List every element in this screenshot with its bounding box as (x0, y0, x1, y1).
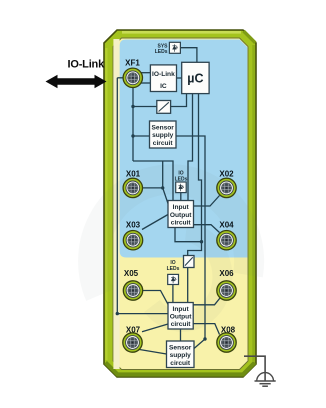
svg-text:circuit: circuit (153, 140, 174, 147)
svg-text:X02: X02 (219, 170, 234, 179)
svg-text:Sensor: Sensor (169, 345, 192, 352)
wire XF1 to IO-Link IC pin2 (141, 82, 150, 84)
svg-text:X08: X08 (221, 326, 236, 335)
connector X08 (217, 333, 236, 352)
wire X05 to IO box2 (141, 291, 168, 305)
wire XF1 down trunk (132, 88, 134, 162)
LED indicator box IO upper (176, 182, 187, 193)
voltage regulator box 1 (diagonal) (157, 101, 171, 114)
wire trunk horizontal to IO box 1 top (133, 161, 173, 201)
svg-text:supply: supply (170, 352, 192, 359)
wire X03 to IO box1 (142, 215, 168, 230)
pale strip left margin (113, 39, 119, 369)
LED indicator box IO lower (168, 274, 179, 284)
connector X03 (123, 231, 142, 250)
svg-text:Input: Input (173, 306, 190, 313)
connector X05 (123, 281, 142, 300)
ground wire (244, 356, 265, 380)
svg-text:X05: X05 (124, 269, 139, 278)
wire rail to lower IO box (117, 313, 168, 315)
svg-text:Output: Output (170, 212, 192, 219)
connector X06 (217, 281, 236, 300)
wire X02 to IO box1 (194, 196, 220, 207)
wire X07 to sensor supply 2 (140, 350, 167, 355)
svg-text:X01: X01 (126, 170, 141, 179)
connector X07 (123, 333, 142, 352)
svg-text:LEDs: LEDs (167, 266, 180, 272)
svg-text:circuit: circuit (171, 321, 192, 328)
microcontroller uC box (182, 62, 209, 93)
watermark (93, 179, 249, 322)
wire uC pin2 down to IO box1 (188, 94, 193, 201)
svg-text:X04: X04 (219, 220, 234, 229)
svg-text:IO-Link: IO-Link (152, 71, 175, 78)
svg-text:IO-Link: IO-Link (68, 59, 106, 71)
wire uC pin3 down to isolator 2 (188, 94, 202, 256)
wire X01 to IO box1 (141, 188, 168, 204)
svg-text:circuit: circuit (171, 219, 192, 226)
svg-text:XF1: XF1 (125, 59, 140, 68)
wire IO-Link IC to uC (177, 77, 182, 79)
svg-text:X03: X03 (126, 220, 141, 229)
wire IO box1 bottom to isolator2 line (175, 228, 202, 242)
IO-Link double arrow (46, 75, 107, 89)
wire X08 to IO box2 (193, 324, 219, 335)
connector X04 (217, 231, 236, 250)
inner panel (pale) (113, 38, 248, 370)
svg-text:Output: Output (170, 314, 192, 321)
wire trunk to regulator (133, 106, 157, 108)
wire XF1 left to rail (117, 48, 220, 354)
wire LED3 stub (172, 285, 174, 303)
blue section (120, 40, 248, 258)
wire regulator to uC bottom (171, 94, 187, 107)
wire LED2 stub (180, 193, 182, 201)
sensor supply circuit box 2 (167, 341, 195, 368)
wire SYS LED to uC top (180, 48, 197, 63)
svg-text:Sensor: Sensor (152, 125, 175, 132)
svg-text:µC: µC (187, 72, 203, 86)
svg-text:IC: IC (160, 83, 167, 90)
wire sensor supply 1 to down rail (176, 136, 205, 339)
connector XF1 (123, 68, 142, 87)
svg-text:Input: Input (173, 204, 190, 211)
wire trunk to sensor supply 1 (133, 135, 150, 137)
sensor supply circuit box 1 (150, 121, 177, 148)
svg-text:circuit: circuit (170, 360, 191, 367)
svg-text:X07: X07 (126, 326, 141, 335)
wire isolator2 to IO box2 (187, 268, 189, 303)
svg-text:LEDs: LEDs (155, 49, 168, 55)
wire X07 to IO box2 (142, 324, 168, 332)
svg-text:X06: X06 (219, 269, 234, 278)
input output circuit box 1 (168, 201, 194, 228)
connector X01 (123, 178, 142, 197)
ground symbol (255, 373, 276, 387)
LED indicator box SYS (169, 42, 180, 53)
wire branch to X01 junction (162, 161, 164, 188)
wire left rail down (116, 78, 118, 314)
IO-Link IC box (150, 65, 176, 92)
connector X02 (217, 178, 236, 197)
svg-text:supply: supply (152, 132, 174, 139)
wire XF1 to IO-Link IC pin1 (141, 72, 150, 74)
input output circuit box 2 (168, 303, 193, 330)
junction dots (116, 105, 207, 341)
wire down rail to sensor supply 2 (194, 339, 205, 349)
wire X04 to IO box1 (194, 225, 220, 233)
device body (lime green housing octagon) (104, 30, 256, 377)
wire X06 to IO box2 (193, 298, 220, 305)
wire IO box2 bottom to sensor supply 2 (180, 329, 182, 341)
voltage regulator box 2 (diagonal) (184, 256, 195, 268)
